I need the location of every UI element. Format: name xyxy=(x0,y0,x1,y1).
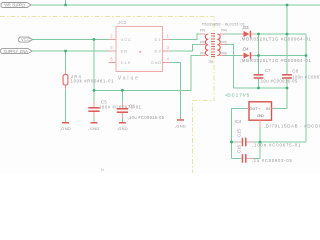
wire C15 row left xyxy=(232,141,238,143)
wire C6 bottom gnd xyxy=(121,117,123,122)
wire stub up at x65.5 xyxy=(65,0,67,5)
wire IC4 OUT left xyxy=(232,109,247,159)
wire VCC vertical xyxy=(93,39,95,90)
diode D3 xyxy=(240,25,312,42)
wire P#1 to VCC row xyxy=(94,56,205,91)
svg-text:SUPPLY_ENA: SUPPLY_ENA xyxy=(3,49,28,54)
wire IC4 GND down xyxy=(259,127,261,158)
svg-text:D1: D1 xyxy=(155,37,162,42)
junction D4 cathode xyxy=(257,54,260,57)
junction D3 cathode xyxy=(257,33,260,36)
IC JC3 xyxy=(108,20,170,82)
svg-text:,MBR0520LT1G #D00964-01: ,MBR0520LT1G #D00964-01 xyxy=(240,36,312,41)
junction WR_SUPPLY rectifier xyxy=(286,4,289,7)
flag VCC xyxy=(19,37,33,42)
svg-text:,JC3: ,JC3 xyxy=(117,20,127,25)
wire D3 cathode row xyxy=(255,33,307,35)
wire gnd bus right xyxy=(260,141,306,143)
svg-text:,GND: ,GND xyxy=(88,126,99,131)
wire C8 top link xyxy=(286,34,288,74)
wire C5 top xyxy=(93,90,95,101)
svg-text:100k #R00481-01: 100k #R00481-01 xyxy=(71,79,115,84)
svg-text:,GND: ,GND xyxy=(117,126,128,131)
svg-text:VCC: VCC xyxy=(121,37,131,42)
net label DC17V5 xyxy=(226,92,250,97)
svg-text:GND: GND xyxy=(257,113,264,118)
svg-text:IN: IN xyxy=(266,106,270,111)
svg-text:T#1: T#1 xyxy=(208,60,213,64)
svg-text:100n #C00675-01: 100n #C00675-01 xyxy=(292,74,320,79)
capacitor C6 xyxy=(117,103,165,120)
wire JC3 GND to gnd symbol xyxy=(170,62,181,118)
svg-text:,1u #C00903-05: ,1u #C00903-05 xyxy=(252,158,293,163)
transformer T1 xyxy=(200,21,245,63)
svg-text:VCC: VCC xyxy=(21,37,30,42)
wire C8 bottom link xyxy=(286,79,288,88)
capacitor C16 xyxy=(236,144,292,163)
junction SUPPLY_ENA / JR4 xyxy=(64,50,67,53)
svg-text:P#6: P#6 xyxy=(221,52,227,56)
wire WR_SUPPLY to rectifier vertical xyxy=(286,5,288,34)
net VCC wire xyxy=(33,38,109,40)
svg-text:,DI79L15DAB - #DCDC17V: ,DI79L15DAB - #DCDC17V xyxy=(264,124,320,129)
svg-text:IC4: IC4 xyxy=(235,119,242,124)
wire C16 row xyxy=(232,157,242,159)
wire C15 row right xyxy=(253,141,260,143)
svg-text:,GND: ,GND xyxy=(175,123,186,128)
wire C6 top xyxy=(121,90,123,102)
svg-text:T5039858 - #L0151-01: T5039858 - #L0151-01 xyxy=(202,21,245,26)
transformer pin names xyxy=(200,28,227,55)
capacitor C8 xyxy=(282,69,320,80)
svg-text:,10u #C00916-05: ,10u #C00916-05 xyxy=(128,115,165,120)
svg-text:C6: C6 xyxy=(129,104,135,109)
flag SUPPLY_ENA xyxy=(1,49,32,54)
right winding xyxy=(217,34,220,56)
wire P#6 to D4 xyxy=(225,55,241,57)
junction C6 top xyxy=(121,89,124,92)
capacitor C15 xyxy=(236,128,301,147)
resistor JR4 xyxy=(63,71,114,90)
wire IC4 IN drop xyxy=(274,88,288,109)
junction C5 top xyxy=(93,89,96,92)
net WR_SUPPLY top rail xyxy=(31,4,320,6)
junction C15 left xyxy=(230,141,233,144)
svg-text:P#2: P#2 xyxy=(200,40,206,44)
wire C5 bottom gnd xyxy=(93,117,95,122)
junction WR_SUPPLY stub xyxy=(64,4,67,7)
junction C7 / DC17V5 row xyxy=(257,87,260,90)
svg-text:,D3: ,D3 xyxy=(242,25,249,30)
svg-text:P#5: P#5 xyxy=(221,40,227,44)
junction C8 / IN drop xyxy=(286,87,289,90)
wire D2 to P#2 xyxy=(170,45,205,52)
left winding xyxy=(205,34,208,56)
net SUPPLY_ENA wire xyxy=(32,50,108,52)
svg-text:P#4: P#4 xyxy=(221,28,227,32)
ground C6 xyxy=(117,122,128,131)
capacitor C5 xyxy=(88,100,107,117)
svg-text:CLK: CLK xyxy=(121,60,131,65)
JC3 pin stubs xyxy=(108,39,170,62)
ground JR4 xyxy=(60,122,71,131)
JC3 pin numbers xyxy=(110,33,169,61)
svg-text:,GND: ,GND xyxy=(60,126,71,131)
core hatch xyxy=(211,34,215,57)
wire JR4 bottom to gnd xyxy=(65,90,67,122)
diode D4 xyxy=(240,47,312,63)
svg-text:C16: C16 xyxy=(236,144,241,153)
wire JR4 top xyxy=(65,51,67,71)
junction D3 row / C8 riser xyxy=(286,33,289,36)
junction VCC wire tap xyxy=(93,38,96,41)
flag WR_SUPPLY xyxy=(1,3,31,8)
svg-text:C15: C15 xyxy=(236,128,241,137)
svg-text:EN: EN xyxy=(121,48,128,53)
svg-text:D2: D2 xyxy=(155,48,162,53)
svg-text:C7: C7 xyxy=(265,68,271,73)
wire P#5 center tap xyxy=(225,45,233,89)
svg-text:,MBR0520LT1G #D00964-01: ,MBR0520LT1G #D00964-01 xyxy=(240,58,312,63)
svg-text:N: N xyxy=(101,167,104,172)
svg-text:C8: C8 xyxy=(292,69,298,74)
wires green xyxy=(31,0,320,158)
svg-text:P#3: P#3 xyxy=(200,28,206,32)
junction C15 right / IC4 gnd xyxy=(259,141,262,144)
svg-text:,D4: ,D4 xyxy=(242,47,249,52)
wire D4 cathode row xyxy=(255,55,307,57)
wire C7 bottom link xyxy=(258,79,260,88)
svg-text:GND: GND xyxy=(151,60,161,65)
regulator IC4 xyxy=(235,102,320,129)
wire C7 top link xyxy=(258,34,260,74)
junction D4 row right xyxy=(305,54,308,57)
JC3 origin mark xyxy=(139,51,141,53)
wire cathode bus down right xyxy=(305,34,307,142)
capacitor C7 xyxy=(254,68,298,83)
wire P#4 to D3 xyxy=(225,33,241,35)
sheet section boundary (yellow dash-dot) xyxy=(0,17,214,173)
svg-text:,100n #C00675-01: ,100n #C00675-01 xyxy=(252,142,301,147)
JC3 pin names xyxy=(121,37,162,65)
svg-text:P#1: P#1 xyxy=(200,52,206,56)
ground JC3 xyxy=(175,119,186,128)
ground C5 xyxy=(88,122,99,131)
svg-text:WR_SUPPLY: WR_SUPPLY xyxy=(4,3,26,8)
svg-text:DC17V5: DC17V5 xyxy=(227,92,249,97)
wire C16 row right xyxy=(254,157,260,159)
wire D1 to P#3 xyxy=(170,34,205,39)
transformer pin stubs xyxy=(200,34,225,56)
net DC17V5 row xyxy=(234,87,288,89)
